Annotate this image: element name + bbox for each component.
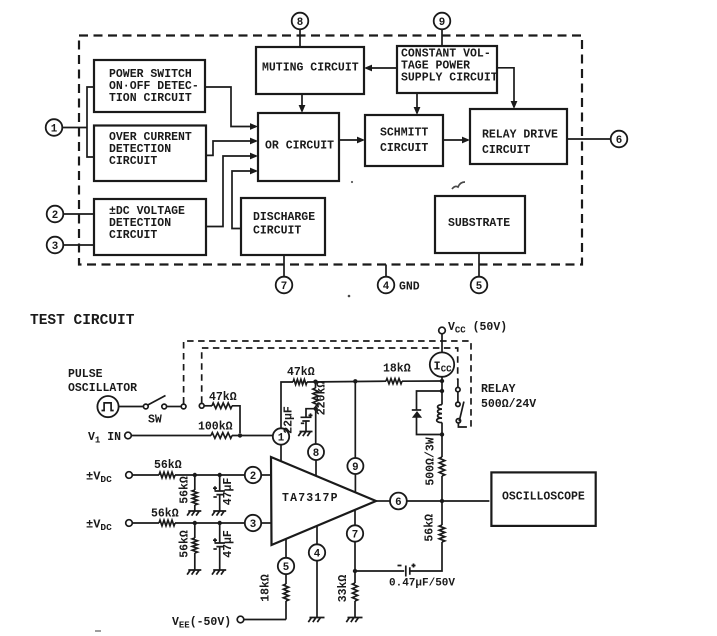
svg-text:220kΩ: 220kΩ (316, 381, 329, 416)
scan artifact dot2 (351, 181, 353, 183)
pin 5 terminal (471, 277, 488, 294)
wire vee to 18k (244, 619, 286, 621)
wire 56k to pin 2 circle (175, 474, 245, 476)
resistor 47k at switch (204, 405, 212, 407)
svg-text:ICC: ICC (434, 360, 453, 375)
svg-text:SW: SW (148, 414, 162, 427)
pin 9 terminal (434, 13, 451, 30)
wire discharge circuit to or circuit (232, 171, 256, 229)
wire or circuit to schmitt circuit (339, 139, 363, 141)
wire pin 9 into amplifier (354, 474, 356, 492)
wire amp to pin 7 (354, 509, 356, 525)
wire pin 2 to dc detection (64, 213, 94, 215)
svg-text:CIRCUIT: CIRCUIT (380, 142, 428, 155)
pin 3 circle (245, 515, 261, 531)
svg-text:OSCILLOSCOPE: OSCILLOSCOPE (502, 491, 585, 504)
block: substrate (435, 196, 525, 253)
pin 3 terminal (47, 237, 64, 254)
resistor 18k pin5 (283, 584, 288, 601)
wire oscillator to switch (119, 406, 144, 408)
wire pin 4 ground stub (385, 265, 387, 277)
svg-text:47μF: 47μF (222, 530, 235, 558)
wire pin 9 to constant voltage circuit (441, 30, 443, 46)
capacitor 47uF pin3 (219, 523, 221, 543)
svg-text:7: 7 (281, 281, 287, 293)
pin 6 circle (390, 493, 407, 510)
relay coil (441, 391, 443, 405)
wire coil to 500 ohm resistor (441, 435, 443, 458)
svg-text:47kΩ: 47kΩ (209, 391, 237, 404)
wire pin 4 to ground (316, 561, 318, 618)
svg-text:CIRCUIT: CIRCUIT (482, 144, 530, 157)
svg-text:56kΩ: 56kΩ (179, 530, 192, 558)
svg-text:3: 3 (250, 519, 256, 531)
wire discharge circuit to pin 7 (283, 255, 285, 276)
resistor 56k at scope (439, 525, 445, 542)
wire amp to pin 4 (316, 526, 318, 545)
svg-text:3: 3 (52, 241, 58, 253)
svg-text:RELAY: RELAY (481, 383, 516, 396)
wire 56k to pin 3 circle (175, 522, 245, 524)
svg-text:SUPPLY CIRCUIT: SUPPLY CIRCUIT (401, 72, 498, 85)
wire supply rail to pin 9 (354, 381, 356, 458)
switch link node a (181, 404, 186, 409)
wire muting circuit to or circuit (301, 94, 303, 111)
dashed link outer: node a to relay contact bottom (184, 341, 471, 427)
resistor 56k pin2 shunt (194, 475, 196, 490)
svg-text:18kΩ: 18kΩ (260, 574, 273, 602)
pulse oscillator source (97, 396, 118, 417)
wire constant voltage to schmitt circuit (416, 93, 418, 113)
svg-text:500Ω/3W: 500Ω/3W (425, 437, 438, 485)
svg-text:±VDC: ±VDC (86, 470, 112, 486)
wire 500 ohm to pin6 node (441, 476, 443, 501)
svg-text:6: 6 (616, 135, 622, 147)
svg-text:1: 1 (51, 123, 58, 135)
IC dashed boundary box (79, 36, 582, 265)
ground 56k pin3 (187, 570, 201, 575)
svg-text:PULSE: PULSE (68, 368, 103, 381)
svg-text:2: 2 (250, 471, 256, 483)
wire icc to rail junction (441, 377, 443, 391)
ground 47uF pin3 (212, 570, 226, 575)
oscilloscope box (491, 472, 595, 526)
pin 5 circle (278, 558, 294, 574)
ground for 22uF (298, 432, 312, 437)
wire amp to pin 5 (285, 539, 287, 558)
svg-text:SUBSTRATE: SUBSTRATE (448, 217, 510, 230)
pin 9 circle (347, 458, 363, 474)
scan artifact mark bottom (95, 630, 101, 632)
wire pin 3 into amplifier (261, 522, 271, 524)
resistor 56k pin3 shunt (194, 523, 196, 538)
wire power switch detection to or circuit (205, 87, 256, 127)
svg-text:56kΩ: 56kΩ (179, 476, 192, 504)
pin 7 terminal (276, 277, 293, 294)
wire pin 3 to dc detection (64, 244, 94, 246)
flyback diode loop (417, 391, 443, 435)
terminal +-Vdc upper (126, 472, 133, 479)
svg-text:56kΩ: 56kΩ (424, 514, 437, 542)
svg-text:5: 5 (476, 281, 482, 293)
wire vdc to pin 3 (132, 522, 159, 524)
svg-text:9: 9 (439, 17, 445, 29)
svg-text:V1 IN: V1 IN (88, 431, 121, 446)
block: relay drive circuit (470, 109, 567, 164)
relay contacts (457, 379, 459, 388)
pin 1 terminal (46, 119, 63, 136)
svg-text:8: 8 (297, 17, 303, 29)
wire schmitt to relay drive circuit (443, 139, 468, 141)
resistor 56k pin3 series (159, 520, 175, 526)
svg-text:33kΩ: 33kΩ (337, 575, 350, 603)
svg-text:CIRCUIT: CIRCUIT (253, 224, 301, 237)
svg-text:RELAY DRIVE: RELAY DRIVE (482, 129, 558, 142)
ground pin 4 (308, 618, 324, 623)
scan artifact squiggle (452, 182, 465, 189)
pin 7 circle (347, 525, 363, 541)
wire substrate to pin 5 (478, 253, 480, 276)
svg-text:OSCILLATOR: OSCILLATOR (68, 382, 137, 395)
svg-text:CIRCUIT: CIRCUIT (109, 229, 157, 242)
dashed link inner: node b to relay contact top (202, 348, 458, 403)
svg-text:5: 5 (283, 562, 289, 574)
wire 0.47uF to 56k (410, 542, 442, 571)
svg-text:47μF: 47μF (222, 478, 235, 506)
resistor 220k (313, 388, 318, 406)
svg-text:GND: GND (399, 281, 420, 294)
svg-text:100kΩ: 100kΩ (198, 421, 233, 434)
block: over current detection circuit (94, 126, 206, 182)
wire pin 1 branch to detection blocks (63, 127, 87, 129)
wire pin 6 to oscilloscope (407, 500, 490, 502)
resistor 56k pin2 series (159, 472, 175, 478)
svg-text:47kΩ: 47kΩ (287, 366, 315, 379)
wire v1 in to pin 1 (131, 435, 211, 437)
pin 4 circle (309, 544, 325, 560)
wire 220k to pin 8 (315, 406, 317, 444)
terminal Vcc (439, 327, 446, 334)
svg-text:TA7317P: TA7317P (282, 492, 339, 505)
wire relay drive to pin 6 (567, 138, 610, 140)
wire vdc to pin 2 (132, 474, 159, 476)
block: constant voltage power supply circuit (397, 46, 497, 93)
pin 2 terminal (47, 206, 64, 223)
resistor 500 ohm 3W (439, 457, 445, 476)
svg-text:500Ω/24V: 500Ω/24V (481, 398, 536, 411)
pin 8 terminal (292, 13, 309, 30)
terminal +-Vdc lower (126, 520, 133, 527)
block: discharge circuit (241, 198, 325, 255)
svg-text:DISCHARGE: DISCHARGE (253, 211, 315, 224)
svg-text:8: 8 (313, 448, 319, 460)
wire dc voltage detection to or circuit (206, 156, 256, 227)
svg-text:0.47μF/50V: 0.47μF/50V (389, 578, 455, 590)
scan artifact dot (348, 295, 351, 298)
svg-text:TION CIRCUIT: TION CIRCUIT (109, 92, 192, 105)
amplifier TA7317P (271, 457, 376, 545)
ground 33k (346, 618, 362, 623)
wire 33k to ground (354, 601, 356, 618)
wire pin 7 to 33k (354, 542, 356, 583)
wire 56k to pin6 node (441, 501, 443, 525)
block: muting circuit (256, 47, 364, 94)
wire pin 8 into amplifier (315, 460, 317, 476)
wire over current detection to or circuit (206, 141, 256, 155)
wire pin 5 to 18k (285, 574, 287, 584)
capacitor 47uF pin2 (219, 475, 221, 491)
wire 18k to vee rail (285, 601, 287, 620)
block: or circuit (258, 113, 339, 181)
svg-text:VEE(-50V): VEE(-50V) (172, 616, 231, 631)
svg-text:56kΩ: 56kΩ (151, 508, 179, 521)
wire constant voltage to muting circuit (366, 67, 397, 69)
svg-text:56kΩ: 56kΩ (154, 459, 182, 472)
svg-text:6: 6 (395, 497, 401, 509)
pin 4 terminal with GND label (378, 277, 395, 294)
svg-text:OR CIRCUIT: OR CIRCUIT (265, 140, 334, 153)
wire pin 2 into amplifier (261, 474, 271, 476)
svg-text:9: 9 (352, 462, 358, 474)
svg-text:SCHMITT: SCHMITT (380, 127, 428, 140)
pin 1 circle (273, 428, 289, 444)
capacitor 22uF (306, 409, 316, 418)
terminal V1 IN (125, 432, 132, 439)
Icc current meter (430, 352, 454, 376)
wire 18k to icc node (402, 380, 442, 382)
block: plus-minus dc voltage detection circuit (94, 199, 206, 255)
wire pin 1 into amplifier (280, 445, 282, 462)
svg-text:TEST CIRCUIT: TEST CIRCUIT (30, 313, 135, 329)
svg-text:7: 7 (352, 529, 358, 541)
svg-text:CIRCUIT: CIRCUIT (109, 155, 157, 168)
wire pin 1 up to feedback rail (281, 382, 293, 428)
svg-text:4: 4 (383, 281, 390, 293)
svg-text:±VDC: ±VDC (86, 518, 112, 534)
ground 56k pin2 (187, 511, 201, 516)
ground 47uF pin2 (212, 511, 226, 516)
wire junction to pin 1 (232, 435, 273, 437)
resistor 47k feedback (293, 379, 307, 384)
capacitor 0.47uF (355, 570, 404, 572)
wire amp output to pin 6 (376, 500, 390, 502)
pin 2 circle (245, 467, 261, 483)
svg-text:VCC (50V): VCC (50V) (448, 321, 507, 336)
block: power switch on-off detection circuit (94, 60, 205, 112)
wire pin 8 to muting circuit (299, 30, 301, 47)
wire vcc to icc meter (441, 334, 443, 353)
wire constant voltage to relay drive circuit (497, 68, 514, 107)
resistor 100k (211, 433, 232, 439)
resistor 18k top (386, 379, 402, 384)
svg-text:18kΩ: 18kΩ (383, 363, 411, 376)
resistor 33k pin7 (352, 583, 357, 601)
switch link node b (199, 403, 204, 408)
block: schmitt circuit (365, 115, 443, 166)
pin 8 circle (308, 444, 324, 460)
switch SW (143, 404, 148, 409)
svg-text:22μF: 22μF (283, 406, 296, 434)
svg-text:MUTING CIRCUIT: MUTING CIRCUIT (262, 62, 359, 75)
terminal Vee (237, 616, 244, 623)
wire switch to node (167, 406, 182, 408)
svg-text:4: 4 (314, 548, 321, 560)
svg-text:2: 2 (52, 210, 58, 222)
pin 6 terminal (611, 131, 628, 148)
wire feedback rail to supply rail (307, 380, 386, 383)
